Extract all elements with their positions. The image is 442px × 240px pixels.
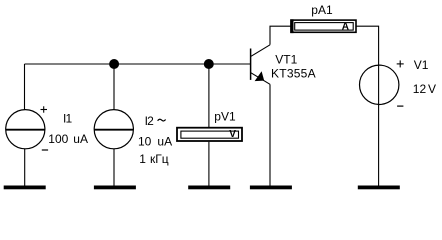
node junction dot at pV1	[204, 59, 214, 69]
svg-text:100: 100	[48, 132, 68, 146]
wire I2 bottom to ground	[113, 149, 115, 186]
svg-text:V1: V1	[414, 58, 429, 72]
svg-text:KT355A: KT355A	[271, 66, 316, 80]
ground pV1	[188, 186, 230, 190]
svg-text:A: A	[342, 22, 349, 33]
wire V1 through and down to ground	[378, 65, 380, 185]
svg-text:I1: I1	[63, 111, 73, 125]
svg-text:uA: uA	[157, 135, 172, 149]
ground VT1 emitter	[250, 186, 292, 190]
wire ammeter to V1	[357, 26, 379, 65]
wire top bus from I1 to VT1 base	[25, 63, 251, 65]
svg-text:V: V	[229, 129, 236, 140]
ground I1	[4, 186, 46, 190]
svg-text:V: V	[428, 82, 436, 96]
wire collector to ammeter	[270, 26, 291, 45]
transistor VT1	[251, 45, 270, 85]
svg-text:pA1: pA1	[311, 3, 333, 17]
ground V1	[358, 186, 400, 190]
svg-text:кГц: кГц	[150, 152, 169, 166]
wire emitter down to ground	[269, 84, 271, 185]
svg-text:12: 12	[413, 82, 427, 96]
ground I2	[94, 186, 136, 190]
svg-text:1: 1	[139, 152, 146, 166]
base bar	[250, 49, 252, 80]
svg-text:I2: I2	[145, 114, 155, 128]
emitter diagonal	[251, 73, 270, 85]
voltage source V1	[360, 60, 404, 106]
collector diagonal	[251, 45, 270, 57]
svg-text:uA: uA	[73, 132, 88, 146]
wire pV1 bottom to ground	[208, 142, 210, 186]
svg-text:VT1: VT1	[275, 52, 297, 66]
voltmeter pV1	[177, 128, 242, 141]
ammeter pA1	[290, 19, 356, 33]
current source I1	[6, 106, 48, 150]
current source I2	[94, 110, 133, 149]
node junction dot at I2	[109, 59, 119, 69]
wire I2 top riser	[113, 64, 115, 110]
wire I1 top riser	[24, 64, 26, 110]
wire I1 bottom to ground	[24, 149, 26, 186]
svg-text:10: 10	[138, 135, 152, 149]
wire pV1 top riser	[208, 64, 210, 127]
emitter arrow	[255, 71, 265, 81]
svg-text:pV1: pV1	[214, 110, 236, 124]
